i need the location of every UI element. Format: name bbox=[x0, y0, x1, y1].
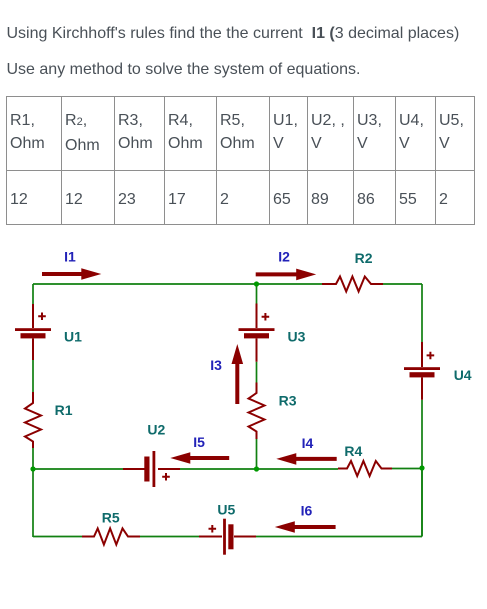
svg-text:R5: R5 bbox=[102, 510, 120, 526]
svg-text:I6: I6 bbox=[301, 503, 313, 519]
svg-text:I5: I5 bbox=[193, 434, 205, 450]
svg-text:U3: U3 bbox=[288, 329, 306, 345]
svg-text:I4: I4 bbox=[302, 435, 314, 451]
svg-text:R2: R2 bbox=[355, 250, 373, 266]
svg-text:R1: R1 bbox=[55, 402, 73, 418]
svg-text:U2: U2 bbox=[147, 422, 165, 438]
svg-text:U4: U4 bbox=[454, 367, 472, 383]
svg-text:U5: U5 bbox=[217, 501, 235, 517]
svg-text:R3: R3 bbox=[279, 393, 297, 409]
svg-text:I3: I3 bbox=[210, 357, 222, 373]
svg-text:I1: I1 bbox=[64, 249, 76, 265]
svg-text:U1: U1 bbox=[64, 329, 82, 345]
svg-text:R4: R4 bbox=[344, 443, 362, 459]
svg-text:I2: I2 bbox=[278, 249, 290, 265]
